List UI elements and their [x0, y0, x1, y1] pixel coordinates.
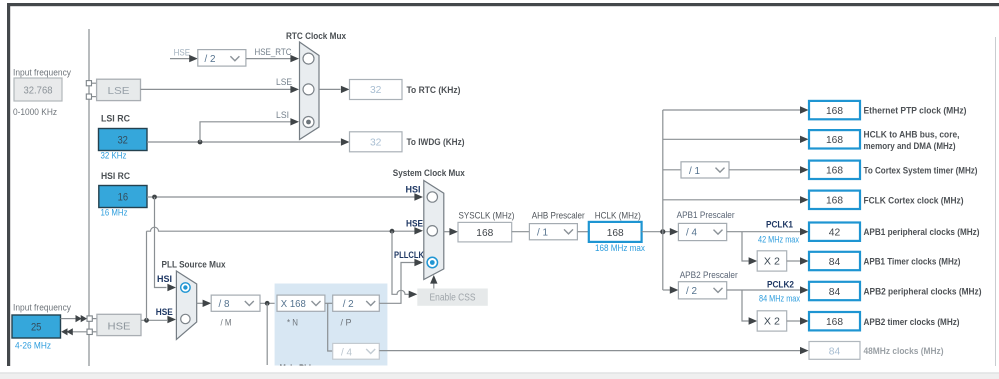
svg-text:PCLK2: PCLK2	[767, 280, 794, 291]
Ethernet PTP value box 168	[809, 101, 860, 119]
svg-text:HSI: HSI	[406, 185, 421, 196]
APB1 timer value box 84	[809, 252, 860, 270]
svg-text:PLL Source Mux: PLL Source Mux	[162, 260, 227, 271]
svg-text:84: 84	[829, 345, 841, 357]
arrow into Cortex timer box	[800, 166, 809, 173]
arrow into APB2 prescaler	[670, 286, 679, 293]
divider AHB prescaler dropdown /1	[529, 224, 577, 240]
svg-text:LSI: LSI	[276, 110, 289, 120]
wire RTC mux output	[319, 88, 341, 90]
svg-text:48MHz clocks (MHz): 48MHz clocks (MHz)	[864, 346, 944, 356]
wire AHB to HCLK	[577, 231, 588, 233]
node LSI junction	[198, 140, 203, 145]
svg-text:X 2: X 2	[764, 316, 780, 328]
wire pin to LSE b	[92, 96, 97, 98]
svg-text:HSE: HSE	[406, 218, 423, 229]
svg-text:/ 1: / 1	[689, 165, 700, 177]
divider HSE_RTC /2 dropdown	[198, 50, 246, 67]
radio PLL HSI selected	[181, 283, 190, 292]
OSC_IN pin square	[87, 316, 92, 321]
arrow up into mux bottom	[430, 275, 437, 284]
OSC_OUT pin square	[87, 329, 92, 334]
multiplier X2 APB2 timers	[757, 311, 787, 331]
svg-text:84: 84	[829, 286, 841, 298]
arrow into APB1 X2	[749, 257, 758, 264]
48MHz value box 84 grayed	[809, 342, 860, 360]
node HSI junction	[152, 195, 157, 200]
wire HSE output	[141, 319, 167, 321]
OSC32_OUT pin square	[86, 94, 91, 99]
svg-text:25: 25	[31, 322, 42, 334]
Enable CSS button	[417, 289, 488, 306]
svg-text:/ 4: / 4	[686, 227, 697, 239]
svg-text:168: 168	[607, 227, 624, 239]
arrow into APB2 X2	[749, 317, 758, 324]
svg-text:168: 168	[826, 195, 843, 207]
wire HSI branch down to PLL mux	[155, 197, 167, 288]
arrow double out of OSC_OUT	[61, 328, 73, 335]
wire LSI branch to RTC mux	[200, 122, 291, 142]
svg-text:HSE_RTC: HSE_RTC	[255, 47, 292, 57]
page left border	[7, 3, 10, 366]
Cortex timer value box 168	[809, 161, 860, 179]
wire /Q to 48MHz box	[379, 350, 800, 352]
svg-text:HCLK to AHB bus, core,: HCLK to AHB bus, core,	[864, 129, 960, 139]
svg-text:32.768: 32.768	[24, 85, 53, 97]
wire LSI to IWDG	[147, 141, 341, 143]
arrow double into OSC_IN	[76, 315, 88, 322]
wire /M to PLL	[260, 302, 278, 304]
svg-text:HSE: HSE	[174, 48, 191, 58]
radio sys HSI unselected	[427, 192, 437, 202]
svg-text:168: 168	[476, 227, 493, 239]
svg-text:0-1000 KHz: 0-1000 KHz	[13, 107, 57, 117]
arrow into APB1 timer box	[800, 257, 809, 264]
wire pin to LSE a	[92, 82, 97, 84]
svg-text:HSI: HSI	[157, 274, 172, 285]
svg-text:168: 168	[826, 165, 843, 177]
arrow LSE into mux	[290, 86, 299, 93]
svg-text:APB2 Prescaler: APB2 Prescaler	[680, 270, 738, 280]
arrow into APB2 timer box	[800, 317, 809, 324]
wire HSE box to OSC_OUT	[92, 331, 97, 333]
svg-text:4-26 MHz: 4-26 MHz	[15, 341, 51, 351]
arrow HSE into system mux	[414, 227, 423, 234]
bottom toolbar band	[0, 372, 999, 379]
svg-text:/ M: / M	[221, 318, 232, 328]
wire CSS tap down to Enable CSS with hop	[392, 231, 409, 294]
divider APB2 prescaler dropdown /2	[678, 282, 726, 299]
wire trunk to Ethernet row	[663, 109, 800, 111]
FCLK value box 168	[809, 191, 860, 209]
HCLK AHB value box 168	[809, 130, 860, 148]
arrow into To IWDG box	[341, 138, 350, 145]
arrow LSI into mux	[290, 118, 299, 125]
node HCLK trunk junction	[660, 229, 665, 234]
wire trunk to HCLK AHB row	[663, 138, 800, 140]
To IWDG value box 32	[350, 132, 403, 152]
svg-text:Enable CSS: Enable CSS	[430, 292, 476, 304]
svg-text:42 MHz max: 42 MHz max	[758, 234, 799, 244]
radio LSE unselected	[303, 84, 314, 95]
svg-text:HSE: HSE	[156, 307, 173, 318]
svg-text:APB2 peripheral clocks (MHz): APB2 peripheral clocks (MHz)	[864, 287, 982, 297]
arrow HSE_RTC into mux	[290, 55, 299, 62]
arrow into HCLK AHB box	[800, 136, 809, 143]
wire to /Q divider	[328, 303, 333, 351]
wire LSE to RTC mux	[141, 88, 292, 90]
svg-text:168: 168	[826, 105, 843, 117]
LSE oscillator box	[97, 79, 141, 100]
LSE input frequency box 32.768	[14, 78, 62, 101]
right scrollbar line	[995, 37, 996, 366]
wire PLL input vertical stub	[266, 303, 268, 365]
svg-text:/ 2: / 2	[205, 53, 216, 65]
wire HSE_RTC to mux	[246, 58, 291, 60]
svg-text:To Cortex System timer (MHz): To Cortex System timer (MHz)	[864, 165, 978, 175]
HCLK value box 168 highlighted	[589, 222, 642, 242]
svg-text:/ P: / P	[341, 318, 352, 328]
svg-text:Input frequency: Input frequency	[13, 68, 71, 78]
wire APB2 prescaler to PCLK2 box	[727, 289, 800, 291]
svg-text:84 MHz max: 84 MHz max	[759, 293, 800, 303]
wire 25 box to OSC_IN	[61, 318, 77, 320]
svg-text:FCLK Cortex clock (MHz): FCLK Cortex clock (MHz)	[864, 195, 964, 205]
radio LSI selected	[303, 117, 314, 128]
svg-text:32: 32	[117, 135, 128, 147]
wire OSC_IN to HSE box	[92, 318, 97, 320]
divider Cortex /1 dropdown	[681, 162, 729, 178]
wire HSE horizontal to system mux with hop	[147, 227, 415, 231]
radio HSE_RTC unselected	[303, 53, 314, 64]
OSC32_IN pin square	[86, 81, 91, 86]
wire Enable CSS up arrow	[433, 281, 435, 289]
arrow into RTC divider	[189, 55, 198, 62]
wire HCLK distribution trunk	[662, 110, 664, 290]
clock source rail	[88, 29, 90, 366]
node PLL input junction	[265, 301, 270, 306]
svg-text:84: 84	[829, 256, 841, 268]
svg-text:AHB Prescaler: AHB Prescaler	[532, 211, 585, 221]
LSI RC source box 32	[99, 129, 148, 151]
svg-text:HSI RC: HSI RC	[101, 171, 130, 182]
svg-text:X 2: X 2	[764, 256, 780, 268]
svg-text:APB1 Prescaler: APB1 Prescaler	[677, 210, 735, 220]
arrow HSE into PLL mux	[167, 316, 176, 323]
radio PLL HSE unselected	[181, 314, 190, 323]
arrow into 48MHz box	[800, 347, 809, 354]
wire Cortex divider to box	[729, 169, 800, 171]
svg-text:APB2 timer clocks (MHz): APB2 timer clocks (MHz)	[864, 317, 960, 327]
svg-text:/ 2: / 2	[686, 285, 697, 297]
wire APB2 branch to X2	[742, 290, 749, 321]
label HCLK to AHB two lines	[864, 129, 960, 151]
arrow HSI into system mux	[414, 193, 423, 200]
multiplier *N dropdown X168	[277, 295, 325, 311]
arrow into SYSCLK box	[449, 228, 458, 235]
wire X2 to APB2 timer box	[787, 320, 800, 322]
svg-text:PCLK1: PCLK1	[766, 219, 794, 230]
multiplier X2 APB1 timers	[757, 251, 787, 271]
svg-text:LSE: LSE	[108, 85, 130, 97]
HSE oscillator box	[97, 314, 141, 335]
arrow into To RTC box	[341, 86, 350, 93]
node HSE junction	[144, 318, 149, 323]
svg-text:System Clock Mux: System Clock Mux	[393, 168, 466, 179]
svg-text:APB1 peripheral clocks (MHz): APB1 peripheral clocks (MHz)	[864, 227, 980, 237]
svg-text:To RTC (KHz): To RTC (KHz)	[407, 85, 461, 95]
wire PLL mux output	[197, 302, 203, 304]
Main PLL panel	[275, 284, 388, 375]
svg-text:16: 16	[118, 192, 129, 204]
svg-text:168: 168	[826, 134, 843, 146]
APB1 peripheral value box 42	[809, 223, 860, 241]
svg-text:Main PLL: Main PLL	[280, 363, 314, 374]
mux RTC Clock Mux body	[300, 42, 320, 140]
svg-text:HCLK (MHz): HCLK (MHz)	[595, 211, 641, 221]
arrow HSI into PLL mux	[167, 284, 176, 291]
wire trunk to FCLK row	[663, 199, 800, 201]
svg-text:168 MHz max: 168 MHz max	[595, 243, 645, 253]
svg-text:32: 32	[370, 137, 382, 149]
svg-text:Input frequency: Input frequency	[13, 303, 71, 313]
svg-text:/ 4: / 4	[341, 346, 352, 358]
APB2 peripheral value box 84	[809, 282, 860, 300]
wire system mux output	[444, 231, 450, 233]
svg-text:RTC Clock Mux: RTC Clock Mux	[286, 31, 347, 42]
page top border	[7, 3, 999, 6]
mux PLL Source Mux body	[176, 271, 196, 340]
wire N to P	[325, 302, 333, 304]
svg-text:Ethernet PTP clock (MHz): Ethernet PTP clock (MHz)	[864, 106, 967, 116]
svg-text:X 168: X 168	[281, 298, 306, 310]
svg-text:PLLCLK: PLLCLK	[394, 250, 424, 261]
svg-text:To IWDG (KHz): To IWDG (KHz)	[407, 137, 465, 147]
arrow into Enable CSS	[409, 291, 418, 298]
svg-text:/ 2: / 2	[343, 298, 354, 310]
wire PLLCLK from /P up to system mux	[379, 263, 414, 304]
arrow into FCLK box	[800, 196, 809, 203]
wire HSE vertical to system row	[146, 231, 148, 320]
svg-text:16 MHz: 16 MHz	[101, 208, 128, 218]
svg-text:LSI RC: LSI RC	[101, 114, 130, 125]
arrow PLLCLK into system mux	[414, 259, 423, 266]
svg-text:/ 1: / 1	[537, 227, 548, 239]
To RTC value box 32	[350, 80, 403, 100]
wire trunk to APB2 prescaler	[663, 289, 671, 291]
SYSCLK value box 168	[458, 222, 512, 242]
arrow into APB2 peripheral box	[800, 286, 809, 293]
svg-text:* N: * N	[287, 318, 298, 328]
radio sys HSE unselected	[427, 226, 437, 236]
divider /M dropdown /8	[211, 295, 260, 311]
svg-text:168: 168	[826, 316, 843, 328]
svg-text:32: 32	[370, 84, 382, 96]
wire SYSCLK to AHB prescaler	[512, 231, 530, 233]
wire HCLK to trunk and APB1	[642, 231, 671, 233]
svg-text:LSE: LSE	[276, 77, 292, 87]
svg-text:42: 42	[829, 227, 841, 239]
svg-text:memory and DMA (MHz): memory and DMA (MHz)	[864, 141, 956, 151]
svg-text:SYSCLK (MHz): SYSCLK (MHz)	[459, 211, 515, 221]
HSE input frequency box 25	[12, 315, 61, 338]
node HSE junction at CSS tap	[390, 229, 395, 234]
arrow into APB1 prescaler	[670, 228, 679, 235]
divider /Q dropdown /4 grayed	[333, 343, 380, 359]
arrow into /M divider	[203, 300, 212, 307]
svg-text:APB1 Timer clocks (MHz): APB1 Timer clocks (MHz)	[864, 257, 961, 267]
arrow into APB1 peripheral box	[800, 228, 809, 235]
svg-text:/ 8: / 8	[219, 298, 230, 310]
divider /P dropdown /2	[333, 295, 380, 311]
APB2 timer value box 168	[809, 312, 860, 330]
wire OSC_OUT back	[67, 331, 87, 333]
wire APB1 prescaler to PCLK1 box	[727, 231, 800, 233]
svg-text:32 KHz: 32 KHz	[101, 151, 127, 161]
wire X2 to APB1 timer box	[787, 260, 800, 262]
arrow into Ethernet box	[800, 106, 809, 113]
wire APB1 branch to X2	[742, 232, 749, 261]
divider APB1 prescaler dropdown /4	[678, 223, 726, 240]
wire HSE stub to RTC divider	[170, 58, 190, 60]
radio sys PLLCLK selected	[427, 257, 437, 267]
wire HSI to System Clock Mux	[147, 196, 415, 198]
wire trunk to Cortex timer divider	[663, 169, 681, 171]
mux System Clock Mux body	[424, 181, 444, 280]
svg-text:HSE: HSE	[108, 320, 131, 332]
HSI RC source box 16	[99, 186, 147, 208]
